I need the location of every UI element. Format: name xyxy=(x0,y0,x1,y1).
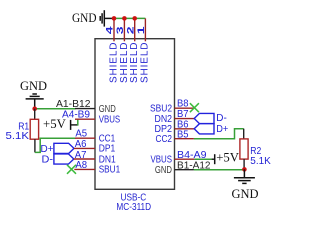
svg-text:SHIELD: SHIELD xyxy=(108,43,119,84)
svg-text:5.1K: 5.1K xyxy=(6,130,29,142)
pin CC2 (B5) xyxy=(175,138,194,140)
pin 4 SHIELD xyxy=(113,18,115,41)
junction on pin 4 xyxy=(112,16,117,21)
svg-text:2: 2 xyxy=(125,26,136,34)
wire +5V to VBUS xyxy=(77,119,79,125)
svg-text:SHIELD: SHIELD xyxy=(140,43,151,84)
pin GND (left, A1-B12) xyxy=(75,108,95,110)
svg-text:+5V: +5V xyxy=(216,150,239,165)
svg-text:CC2: CC2 xyxy=(156,134,173,145)
svg-text:D+: D+ xyxy=(216,123,228,135)
power +5V (left) stem xyxy=(71,124,78,126)
wire R2 bottom xyxy=(243,159,245,169)
pin 2 SHIELD xyxy=(134,18,136,41)
svg-text:DN1: DN1 xyxy=(99,154,116,165)
pin SBU1 (A8) xyxy=(74,168,95,170)
no-connect X on SBU2 xyxy=(190,103,199,112)
power +5V (right) stem xyxy=(212,158,215,160)
ground GND (right) symbol xyxy=(234,169,255,183)
svg-text:A8: A8 xyxy=(75,159,87,171)
svg-text:GND: GND xyxy=(20,78,47,93)
ground GND (top) symbol xyxy=(100,10,113,26)
pin DN1 (A7) xyxy=(74,158,95,160)
ground GND (left) symbol, pointing up xyxy=(26,94,44,110)
junction R2/GND xyxy=(242,167,247,172)
global label D- (left) flag xyxy=(54,154,74,164)
wire GND net right xyxy=(194,169,245,171)
wire CC2 to R2 xyxy=(194,129,244,139)
no-connect X on SBU1 xyxy=(67,165,76,174)
pin DP2 (B6) xyxy=(175,128,195,130)
pin DP1 (A6) xyxy=(74,147,95,149)
global label D+ (left) flag xyxy=(54,143,74,153)
svg-text:SHIELD: SHIELD xyxy=(129,43,140,84)
svg-text:GND: GND xyxy=(155,165,172,176)
svg-text:D-: D- xyxy=(42,154,54,166)
wire R1 to CC1 xyxy=(35,138,76,152)
svg-text:B1-A12: B1-A12 xyxy=(177,160,211,172)
svg-text:MC-311D: MC-311D xyxy=(116,202,151,213)
wire R1 bottom xyxy=(34,139,36,152)
junction on pin 2 xyxy=(132,16,137,21)
wire GND net to pin A1-B12 xyxy=(35,108,76,110)
resistor R1 body xyxy=(30,119,38,139)
pin 3 SHIELD xyxy=(123,18,125,41)
svg-text:GND: GND xyxy=(232,186,259,201)
pin DN2 (B7) xyxy=(175,118,195,120)
svg-text:B5: B5 xyxy=(177,129,189,141)
wire top shield bus xyxy=(113,17,145,19)
junction GND/R1/A1-B12 xyxy=(32,106,37,111)
power +5V (left) bar xyxy=(70,120,72,130)
svg-text:VBUS: VBUS xyxy=(151,154,173,165)
svg-text:GND: GND xyxy=(72,10,97,25)
pin CC1 (A5) xyxy=(75,137,95,139)
op-amp U1 : USB-C connector body MC-311D xyxy=(95,39,175,190)
pin VBUS (left, A4-B9) xyxy=(75,118,95,120)
power +5V (right) bar xyxy=(214,154,216,164)
svg-text:VBUS: VBUS xyxy=(99,115,121,126)
svg-text:5.1K: 5.1K xyxy=(250,155,270,167)
svg-text:A4-B9: A4-B9 xyxy=(62,109,90,121)
wire R1 top xyxy=(34,109,36,120)
pin 1 SHIELD xyxy=(144,18,146,41)
pin SBU2 (B8) xyxy=(175,107,194,109)
wire R2 top xyxy=(243,129,245,139)
pin GND (right, B1-A12) xyxy=(175,169,194,171)
pin VBUS (right, B4-A9) xyxy=(175,158,195,160)
global label D+ (right) flag xyxy=(194,124,214,134)
svg-text:SBU1: SBU1 xyxy=(99,165,121,176)
wire VBUS to +5V xyxy=(194,158,211,160)
svg-text:4: 4 xyxy=(105,25,116,34)
junction on pin 3 xyxy=(122,16,127,21)
svg-text:1: 1 xyxy=(136,25,147,34)
global label D- (right) flag xyxy=(194,113,214,123)
svg-text:DP1: DP1 xyxy=(99,144,116,155)
svg-text:SBU2: SBU2 xyxy=(150,104,172,115)
resistor R2 body xyxy=(240,139,248,159)
